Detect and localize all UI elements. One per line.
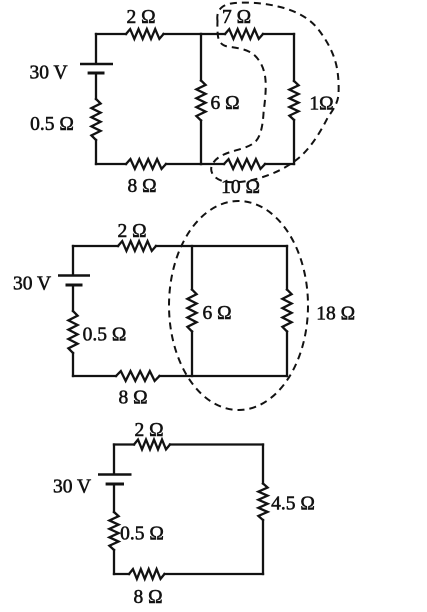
svg-text:30 V: 30 V (29, 63, 67, 84)
resistor 8 ohm (circuit 3, bottom) (129, 569, 164, 579)
resistor 4.5 ohm (circuit 3, right branch) (258, 484, 267, 521)
wire: circuit 1 top, 2-ohm resistor to node at middle branch (164, 33, 202, 35)
resistor 6 ohm (circuit 1, middle branch) (196, 81, 205, 121)
wire: circuit 3 left, battery to 0.5-ohm resistor (113, 485, 115, 512)
wire: circuit 1 top-left, battery to 2-ohm resistor (96, 33, 126, 35)
svg-text:8 Ω: 8 Ω (118, 388, 147, 409)
wire: circuit 1 bottom, corner to 8-ohm resistor (96, 163, 126, 165)
svg-text:8 Ω: 8 Ω (127, 176, 156, 197)
resistor 0.5 ohm (circuit 2, left) (68, 311, 77, 353)
battery 30 V (circuit 2): long positive plate (58, 274, 90, 276)
wire: circuit 2 left, battery to 0.5-ohm resistor (72, 286, 74, 311)
wire: circuit 3 right branch, top corner to 4.5-ohm resistor (262, 445, 264, 484)
resistor 8 ohm (circuit 2, bottom) (116, 371, 159, 381)
svg-text:6 Ω: 6 Ω (210, 93, 239, 114)
svg-text:2 Ω: 2 Ω (118, 221, 147, 242)
dashed grouping ellipse around the 6-ohm and 18-ohm parallel branches (circuit 2) (169, 201, 308, 410)
wire: circuit 2 bottom, corner to 8-ohm resistor (73, 375, 116, 377)
wire: circuit 2 middle branch, top node to 6-ohm resistor (191, 246, 193, 290)
wire: circuit 1 right branch, top corner to 1-ohm resistor (293, 34, 295, 81)
wire: circuit 2 top-left, battery corner to 2-ohm resistor (73, 245, 118, 247)
svg-text:30 V: 30 V (13, 274, 51, 295)
resistor 7 ohm (circuit 1, top right) (225, 29, 263, 39)
svg-text:1Ω: 1Ω (309, 94, 333, 115)
wire: circuit 2 top, 2-ohm resistor across middle node to top-right corner (156, 245, 287, 247)
battery 30 V (circuit 3): long positive plate (98, 473, 132, 475)
svg-text:7 Ω: 7 Ω (222, 7, 251, 28)
svg-text:4.5 Ω: 4.5 Ω (271, 494, 315, 515)
wire: circuit 2 left, 0.5-ohm resistor to bottom-left corner (72, 353, 74, 376)
svg-text:2 Ω: 2 Ω (126, 7, 155, 28)
svg-text:0.5 Ω: 0.5 Ω (30, 114, 74, 135)
resistor 18 ohm (circuit 2, right branch) (282, 290, 291, 332)
wire: circuit 3 bottom, corner to 8-ohm resistor (114, 573, 129, 575)
wire: circuit 3 top, 2-ohm resistor to top-right corner (170, 443, 263, 445)
wire: circuit 1 middle branch, top node to 6-ohm resistor (200, 34, 202, 81)
wire: circuit 1 middle branch, 6-ohm resistor to bottom node (200, 121, 202, 165)
battery 30 V (circuit 2): short negative plate (66, 283, 83, 286)
resistor 6 ohm (circuit 2, middle branch) (187, 290, 196, 332)
wire: circuit 3 top-left, battery corner to 2-ohm resistor (114, 443, 134, 445)
svg-text:18 Ω: 18 Ω (316, 304, 355, 325)
svg-text:6 Ω: 6 Ω (202, 303, 231, 324)
battery 30 V (circuit 3): short negative plate (106, 482, 124, 485)
resistor 10 ohm (circuit 1, bottom right) (224, 159, 265, 169)
svg-text:0.5 Ω: 0.5 Ω (83, 325, 127, 346)
wire: circuit 1 top, 7-ohm resistor to top-right corner (263, 33, 294, 35)
wire: circuit 1 bottom, node to 10-ohm resistor (201, 163, 224, 165)
wire: circuit 3 left, 0.5-ohm resistor to bottom-left corner (113, 550, 115, 574)
wire: circuit 1 bottom, 10-ohm resistor to bottom-right corner (265, 163, 294, 165)
wire: circuit 2 right branch, 18-ohm resistor to bottom corner (286, 332, 288, 377)
resistor 2 ohm (circuit 3, top) (134, 440, 170, 450)
battery 30 V (circuit 1): long positive plate (80, 63, 113, 65)
resistor 2 ohm (circuit 1, top left) (126, 29, 164, 39)
svg-text:30 V: 30 V (53, 477, 91, 498)
wire: circuit 1 left, battery to 0.5-ohm resistor (95, 74, 97, 99)
resistor 1 ohm (circuit 1, right branch) (289, 81, 298, 120)
dashed grouping loop around the 7-ohm, 1-ohm and 10-ohm resistors (circuit 1) (211, 3, 338, 183)
svg-text:2 Ω: 2 Ω (134, 420, 163, 441)
resistor 0.5 ohm (circuit 1, left) (91, 99, 100, 140)
wire: circuit 3 bottom, 8-ohm resistor to bottom-right corner (165, 573, 264, 575)
resistor 2 ohm (circuit 2, top) (118, 241, 156, 251)
wire: circuit 2 bottom, 8-ohm resistor across middle node to bottom-right corner (160, 375, 288, 377)
svg-text:0.5 Ω: 0.5 Ω (120, 524, 164, 545)
wire: circuit 3 right branch, 4.5-ohm resistor to bottom-right corner (262, 520, 264, 574)
resistor 0.5 ohm (circuit 3, left) (109, 512, 118, 550)
resistor 8 ohm (circuit 1, bottom left) (126, 159, 166, 169)
wire: circuit 1 left, 0.5-ohm resistor to bottom-left corner (95, 140, 97, 164)
svg-text:8 Ω: 8 Ω (133, 587, 162, 608)
wire: circuit 1 bottom, 8-ohm resistor to node at middle branch (166, 163, 201, 165)
battery 30 V (circuit 1): short negative plate (88, 71, 105, 74)
wire: circuit 2 middle branch, 6-ohm resistor to bottom node (191, 332, 193, 377)
wire: circuit 1 left, top corner down to battery positive plate (95, 34, 97, 63)
wire: circuit 2 right branch, top corner to 18-ohm resistor (286, 246, 288, 290)
wire: circuit 1 right branch, 1-ohm resistor to bottom corner (293, 120, 295, 164)
wire: circuit 3 left, top corner down to battery positive plate (113, 445, 115, 474)
wire: circuit 1 top, node to 7-ohm resistor (201, 33, 225, 35)
wire: circuit 2 left, top corner down to battery positive plate (72, 246, 74, 275)
